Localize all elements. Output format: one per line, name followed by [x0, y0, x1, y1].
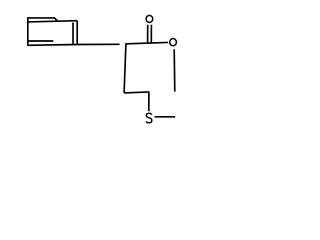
- benzene ring top edge bond: [27, 21, 77, 22]
- wire bond alpha carbon down chain: [124, 44, 126, 93]
- wire bond alpha carbon to carbonyl carbon to ester O: [125, 42, 168, 44]
- wire bond ester O to methyl: [173, 49, 176, 91]
- atom label O ester: [170, 39, 177, 46]
- wire bond S to methyl: [155, 116, 176, 118]
- C=O double bond line 1: [147, 25, 149, 44]
- C=O double bond line 2: [150, 25, 152, 44]
- benzene ring bottom edge bond: [28, 44, 78, 47]
- benzene ring right edge bond: [76, 21, 78, 45]
- benzene ring left edge bond: [27, 17, 29, 45]
- wire bond ring to alpha carbon: [77, 43, 119, 45]
- atom label O carbonyl: [146, 15, 153, 22]
- atom label S thioether: [146, 113, 152, 122]
- wire bond chain horizontal to C4: [124, 92, 149, 93]
- benzene ring right double-bond inner line: [72, 23, 74, 45]
- wire bond C4 down to S: [148, 92, 150, 111]
- benzene ring top double-bond outer line: [27, 18, 57, 21]
- benzene ring bottom double-bond inner line: [28, 40, 53, 42]
